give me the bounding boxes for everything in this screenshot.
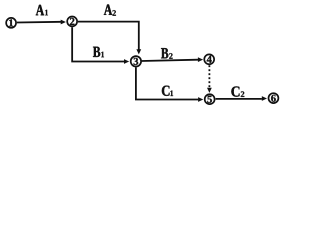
- dashed dummy arrow from node 4 to node 5: [207, 65, 212, 93]
- node 4: [204, 54, 214, 64]
- wire A1 arrow from node 1 to node 2: [17, 20, 66, 25]
- label A1: [36, 5, 48, 15]
- node 2: [67, 17, 77, 27]
- wire A2 elbow arrow from node 2 to node 3: [78, 22, 141, 55]
- wire B1 elbow arrow from node 2 to node 3: [72, 27, 129, 64]
- label C2: [231, 86, 244, 96]
- node 6: [269, 93, 279, 103]
- wire C2 arrow from node 5 to node 6: [216, 96, 267, 101]
- wire C1 elbow arrow from node 3 to node 5: [136, 67, 203, 102]
- label C1: [162, 86, 173, 96]
- label B2: [161, 48, 172, 59]
- node 1: [6, 18, 16, 28]
- node 5: [205, 94, 215, 104]
- label A2: [104, 4, 116, 15]
- label B1: [93, 47, 104, 57]
- node 3: [131, 56, 141, 66]
- wire B2 arrow from node 3 to node 4: [142, 57, 204, 62]
